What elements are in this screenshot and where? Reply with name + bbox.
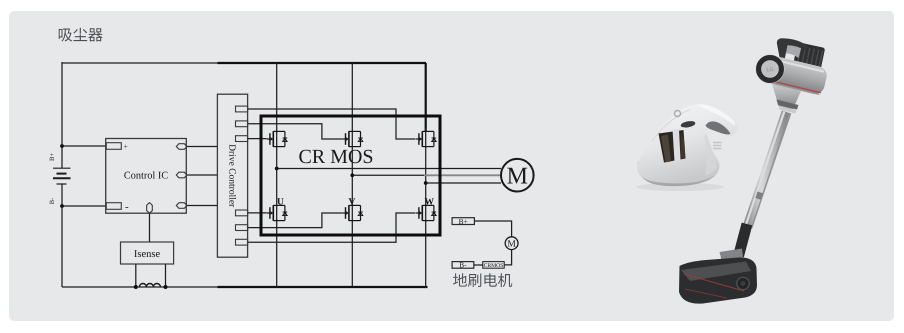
brush motor M2 <box>505 237 518 250</box>
wire phase V to motor dark part <box>352 174 425 176</box>
Isense block <box>121 242 174 264</box>
node shunt left <box>134 285 138 289</box>
Control IC U1 <box>106 139 187 214</box>
label 地刷电机 <box>453 273 512 287</box>
wire left vertical upper <box>61 62 63 168</box>
wire gate W low <box>248 213 416 242</box>
wire top rail thick <box>218 62 427 64</box>
wire left vertical lower <box>61 184 63 287</box>
wire gate U low <box>248 212 267 214</box>
node phase V <box>350 173 354 177</box>
wire gate W high <box>248 109 416 139</box>
wire phase U to motor <box>277 168 501 170</box>
wire phase W to motor <box>426 182 501 184</box>
transistor Q6 (W low) <box>416 205 437 221</box>
node battery - <box>60 204 64 208</box>
wire Control IC out3 to Drive Controller <box>187 205 218 207</box>
wire phase V to motor gray part <box>424 174 501 176</box>
node phase U <box>275 167 279 171</box>
node phase W <box>424 181 428 185</box>
wire Control IC out1 to Drive Controller <box>187 146 218 148</box>
wire gate V high <box>248 124 343 139</box>
node shunt right <box>164 285 168 289</box>
wire bottom rail thin <box>62 286 218 288</box>
wire Isense left leg <box>135 264 137 287</box>
transistor Q4 (U low) <box>267 205 288 221</box>
battery label B+ <box>50 153 54 160</box>
wire bottom rail thick <box>218 286 428 288</box>
node battery + <box>60 144 64 148</box>
brush motor: B- terminal <box>452 262 474 269</box>
wire Isense right leg <box>165 264 167 287</box>
wire V column <box>351 63 353 287</box>
wire B+ to brush motor <box>474 221 511 237</box>
wire W column <box>425 128 427 287</box>
handheld vacuum product photo <box>636 104 737 191</box>
wire B- to CRMOS <box>474 264 483 266</box>
wire Control IC bottom to Isense <box>149 213 151 242</box>
wire W column thick top <box>425 63 427 131</box>
title 吸尘器 <box>59 28 103 42</box>
brush motor: B+ terminal <box>452 218 474 225</box>
wire Control IC out2 to Drive Controller <box>187 174 218 176</box>
battery label B- <box>50 198 54 204</box>
wire top rail thin <box>62 62 218 64</box>
transistor Q1 (U high) <box>267 131 288 147</box>
wire battery to Control IC pin + <box>62 145 106 147</box>
label V <box>349 198 356 204</box>
motor M1 <box>501 159 534 192</box>
CRMOS block small <box>483 262 504 269</box>
transistor Q2 (V high) <box>342 131 363 147</box>
wire U column <box>276 63 278 287</box>
stick vacuum product photo <box>679 38 829 303</box>
battery B1 plates <box>53 168 71 184</box>
CR MOS bridge block <box>261 116 440 235</box>
label W <box>425 198 434 204</box>
inductor L1 <box>139 284 160 288</box>
transistor Q5 (V low) <box>342 205 363 221</box>
wire battery to Control IC pin - <box>62 205 106 207</box>
wire gate U high <box>248 138 267 140</box>
Drive Controller U2 <box>217 94 247 257</box>
wire brush motor to CRMOS <box>504 250 511 265</box>
transistor Q3 (W high) <box>416 131 437 147</box>
wire gate V low <box>248 213 343 228</box>
label U <box>277 198 283 204</box>
